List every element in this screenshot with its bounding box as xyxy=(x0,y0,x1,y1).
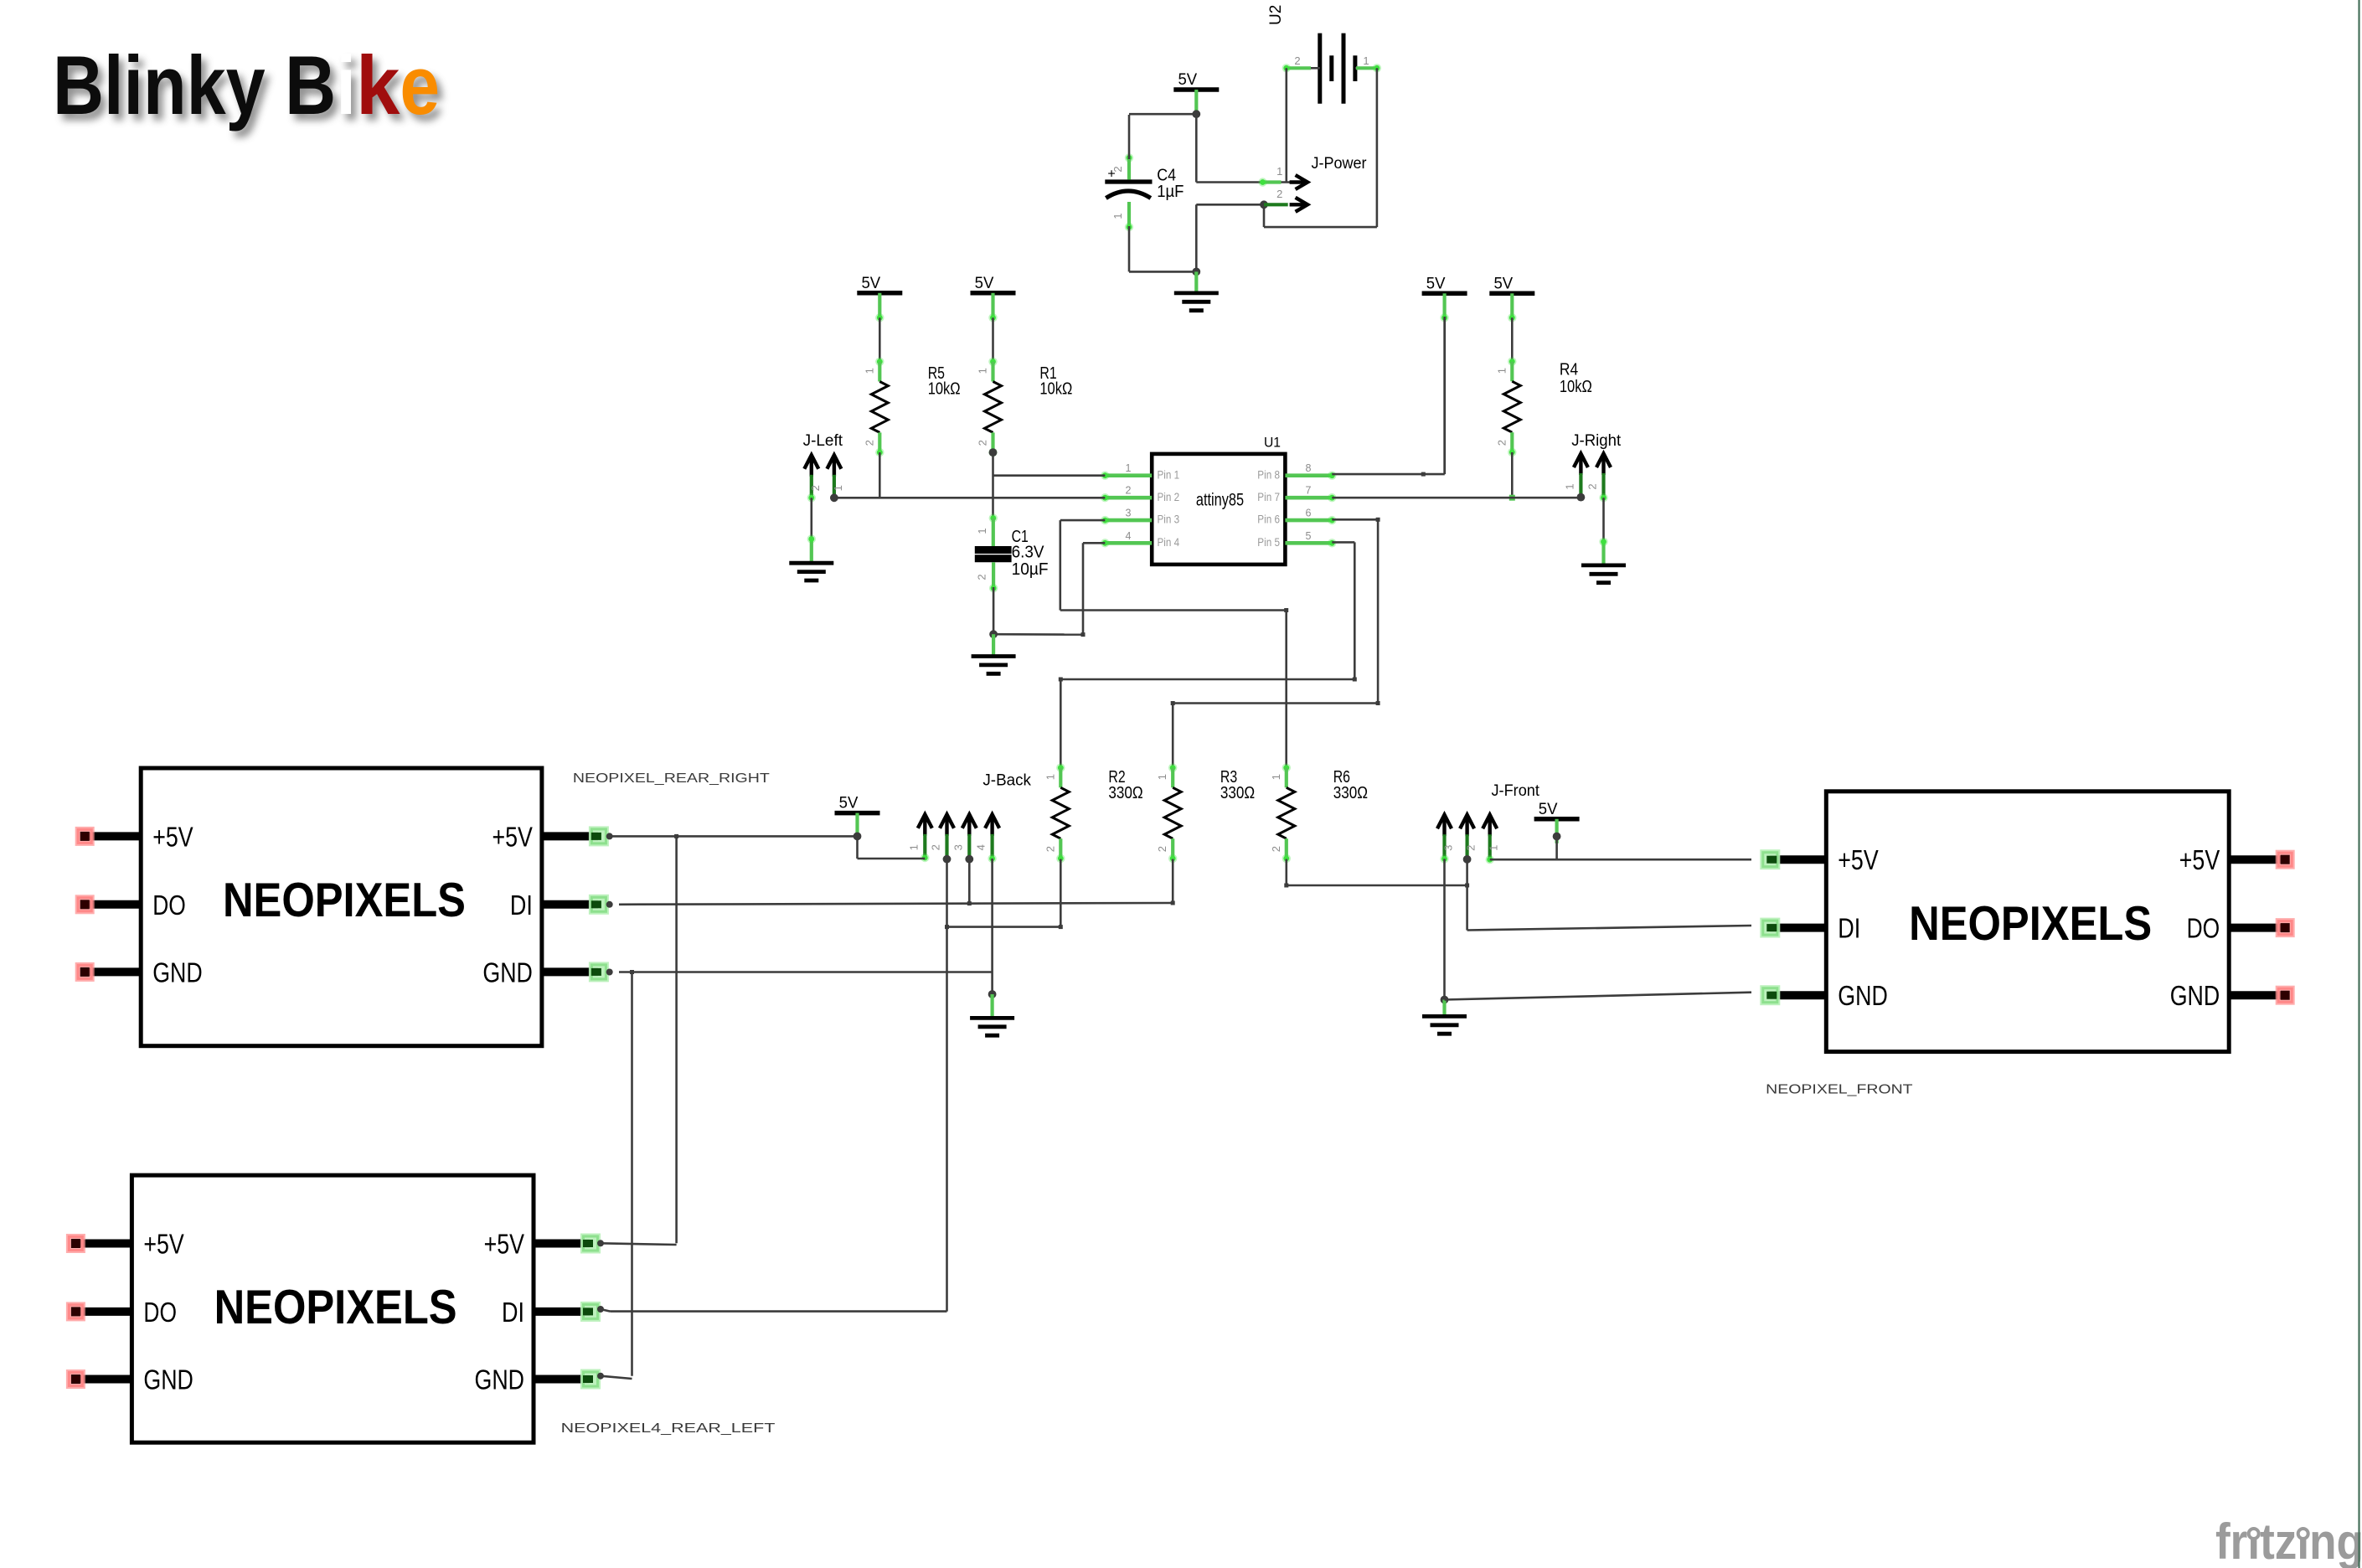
svg-text:1: 1 xyxy=(1276,165,1282,178)
svg-text:330Ω: 330Ω xyxy=(1333,784,1368,802)
svg-text:5V: 5V xyxy=(1539,800,1558,818)
svg-text:GND: GND xyxy=(152,957,203,988)
svg-text:2: 2 xyxy=(1156,846,1168,852)
svg-text:10kΩ: 10kΩ xyxy=(1560,378,1592,396)
svg-text:1: 1 xyxy=(1126,462,1132,474)
svg-text:Pin 4: Pin 4 xyxy=(1158,535,1180,549)
svg-text:NEOPIXEL4_REAR_LEFT: NEOPIXEL4_REAR_LEFT xyxy=(561,1421,776,1436)
svg-text:5V: 5V xyxy=(1178,70,1197,89)
svg-text:1: 1 xyxy=(1488,845,1500,851)
svg-text:5: 5 xyxy=(1306,530,1312,542)
svg-text:Pin 1: Pin 1 xyxy=(1158,467,1180,481)
svg-text:Pin 6: Pin 6 xyxy=(1257,513,1280,526)
svg-text:2: 2 xyxy=(1586,483,1599,489)
svg-text:1: 1 xyxy=(1044,774,1056,780)
svg-text:GND: GND xyxy=(482,957,533,988)
svg-text:+5V: +5V xyxy=(484,1230,525,1261)
svg-text:7: 7 xyxy=(1306,485,1312,497)
svg-text:+5V: +5V xyxy=(1838,845,1879,876)
svg-text:NEOPIXELS: NEOPIXELS xyxy=(1909,897,2152,951)
svg-text:2: 2 xyxy=(1495,440,1508,446)
svg-text:GND: GND xyxy=(143,1365,193,1396)
svg-text:e: e xyxy=(400,39,440,132)
svg-text:2: 2 xyxy=(1111,166,1124,172)
svg-text:U2: U2 xyxy=(1267,5,1285,25)
svg-text:8: 8 xyxy=(1306,462,1312,474)
svg-text:+5V: +5V xyxy=(143,1230,184,1261)
svg-text:+5V: +5V xyxy=(152,822,193,853)
svg-text:4: 4 xyxy=(975,844,988,850)
svg-text:attiny85: attiny85 xyxy=(1196,489,1244,509)
svg-text:Pin 2: Pin 2 xyxy=(1158,490,1180,503)
svg-text:1: 1 xyxy=(1495,368,1508,374)
svg-text:330Ω: 330Ω xyxy=(1108,784,1142,802)
svg-text:J-Left: J-Left xyxy=(803,431,843,450)
svg-text:6.3V: 6.3V xyxy=(1012,543,1045,561)
svg-text:DI: DI xyxy=(1838,914,1860,945)
svg-text:3: 3 xyxy=(1442,845,1455,851)
svg-text:+5V: +5V xyxy=(2179,845,2220,876)
svg-text:DO: DO xyxy=(2187,914,2220,945)
svg-text:2: 2 xyxy=(1465,845,1478,851)
svg-text:i: i xyxy=(336,39,356,132)
svg-text:k: k xyxy=(356,39,400,132)
svg-text:NEOPIXEL_FRONT: NEOPIXEL_FRONT xyxy=(1766,1083,1913,1097)
svg-text:Pin 5: Pin 5 xyxy=(1257,535,1280,549)
svg-text:10µF: 10µF xyxy=(1012,560,1049,579)
svg-text:1: 1 xyxy=(907,844,920,850)
svg-text:DO: DO xyxy=(143,1297,177,1328)
svg-text:1µF: 1µF xyxy=(1157,183,1184,201)
svg-text:6: 6 xyxy=(1306,508,1312,519)
svg-text:1: 1 xyxy=(1111,213,1124,219)
svg-text:4: 4 xyxy=(1126,530,1132,542)
svg-text:J-Power: J-Power xyxy=(1312,154,1367,173)
svg-text:1: 1 xyxy=(832,485,844,491)
svg-text:1: 1 xyxy=(1156,774,1168,780)
svg-text:R4: R4 xyxy=(1560,361,1578,379)
svg-text:GND: GND xyxy=(475,1365,525,1396)
svg-text:+5V: +5V xyxy=(493,822,534,853)
svg-text:2: 2 xyxy=(977,440,989,446)
svg-text:2: 2 xyxy=(930,844,942,850)
svg-text:2: 2 xyxy=(863,440,875,446)
svg-text:J-Front: J-Front xyxy=(1492,781,1540,800)
svg-text:1: 1 xyxy=(976,528,988,534)
svg-text:DO: DO xyxy=(152,890,186,921)
svg-text:2: 2 xyxy=(976,574,988,580)
svg-text:1: 1 xyxy=(1363,54,1369,67)
svg-text:3: 3 xyxy=(952,844,964,850)
svg-text:1: 1 xyxy=(1563,483,1576,489)
svg-text:2: 2 xyxy=(1044,846,1056,852)
svg-text:Pin 7: Pin 7 xyxy=(1257,490,1280,503)
svg-text:NEOPIXELS: NEOPIXELS xyxy=(223,874,466,927)
svg-text:2: 2 xyxy=(1276,188,1282,200)
svg-text:2: 2 xyxy=(1294,54,1300,67)
svg-text:2: 2 xyxy=(1270,846,1282,852)
svg-text:GND: GND xyxy=(2170,981,2220,1012)
svg-text:5V: 5V xyxy=(1426,274,1446,292)
svg-text:fritzing: fritzing xyxy=(2215,1514,2362,1568)
svg-text:Blinky B: Blinky B xyxy=(53,39,336,132)
svg-text:U1: U1 xyxy=(1264,435,1281,450)
svg-text:5V: 5V xyxy=(1493,274,1513,292)
svg-text:1: 1 xyxy=(1270,774,1282,780)
svg-text:GND: GND xyxy=(1838,981,1888,1012)
svg-text:10kΩ: 10kΩ xyxy=(928,380,961,399)
svg-text:10kΩ: 10kΩ xyxy=(1039,380,1072,399)
svg-text:Pin 8: Pin 8 xyxy=(1257,467,1280,481)
svg-text:330Ω: 330Ω xyxy=(1220,784,1255,802)
svg-text:NEOPIXEL_REAR_RIGHT: NEOPIXEL_REAR_RIGHT xyxy=(573,771,770,786)
svg-text:J-Right: J-Right xyxy=(1571,431,1622,450)
svg-text:NEOPIXELS: NEOPIXELS xyxy=(214,1281,457,1334)
svg-text:1: 1 xyxy=(863,368,875,374)
svg-text:Pin 3: Pin 3 xyxy=(1158,513,1180,526)
svg-text:5V: 5V xyxy=(839,794,859,812)
svg-text:DI: DI xyxy=(510,890,533,921)
svg-text:2: 2 xyxy=(809,485,822,491)
svg-text:J-Back: J-Back xyxy=(982,771,1031,790)
svg-text:DI: DI xyxy=(502,1297,524,1328)
svg-text:5V: 5V xyxy=(975,274,994,292)
svg-text:5V: 5V xyxy=(861,274,880,292)
svg-text:1: 1 xyxy=(977,368,989,374)
svg-text:3: 3 xyxy=(1126,508,1132,519)
svg-text:2: 2 xyxy=(1126,485,1132,497)
